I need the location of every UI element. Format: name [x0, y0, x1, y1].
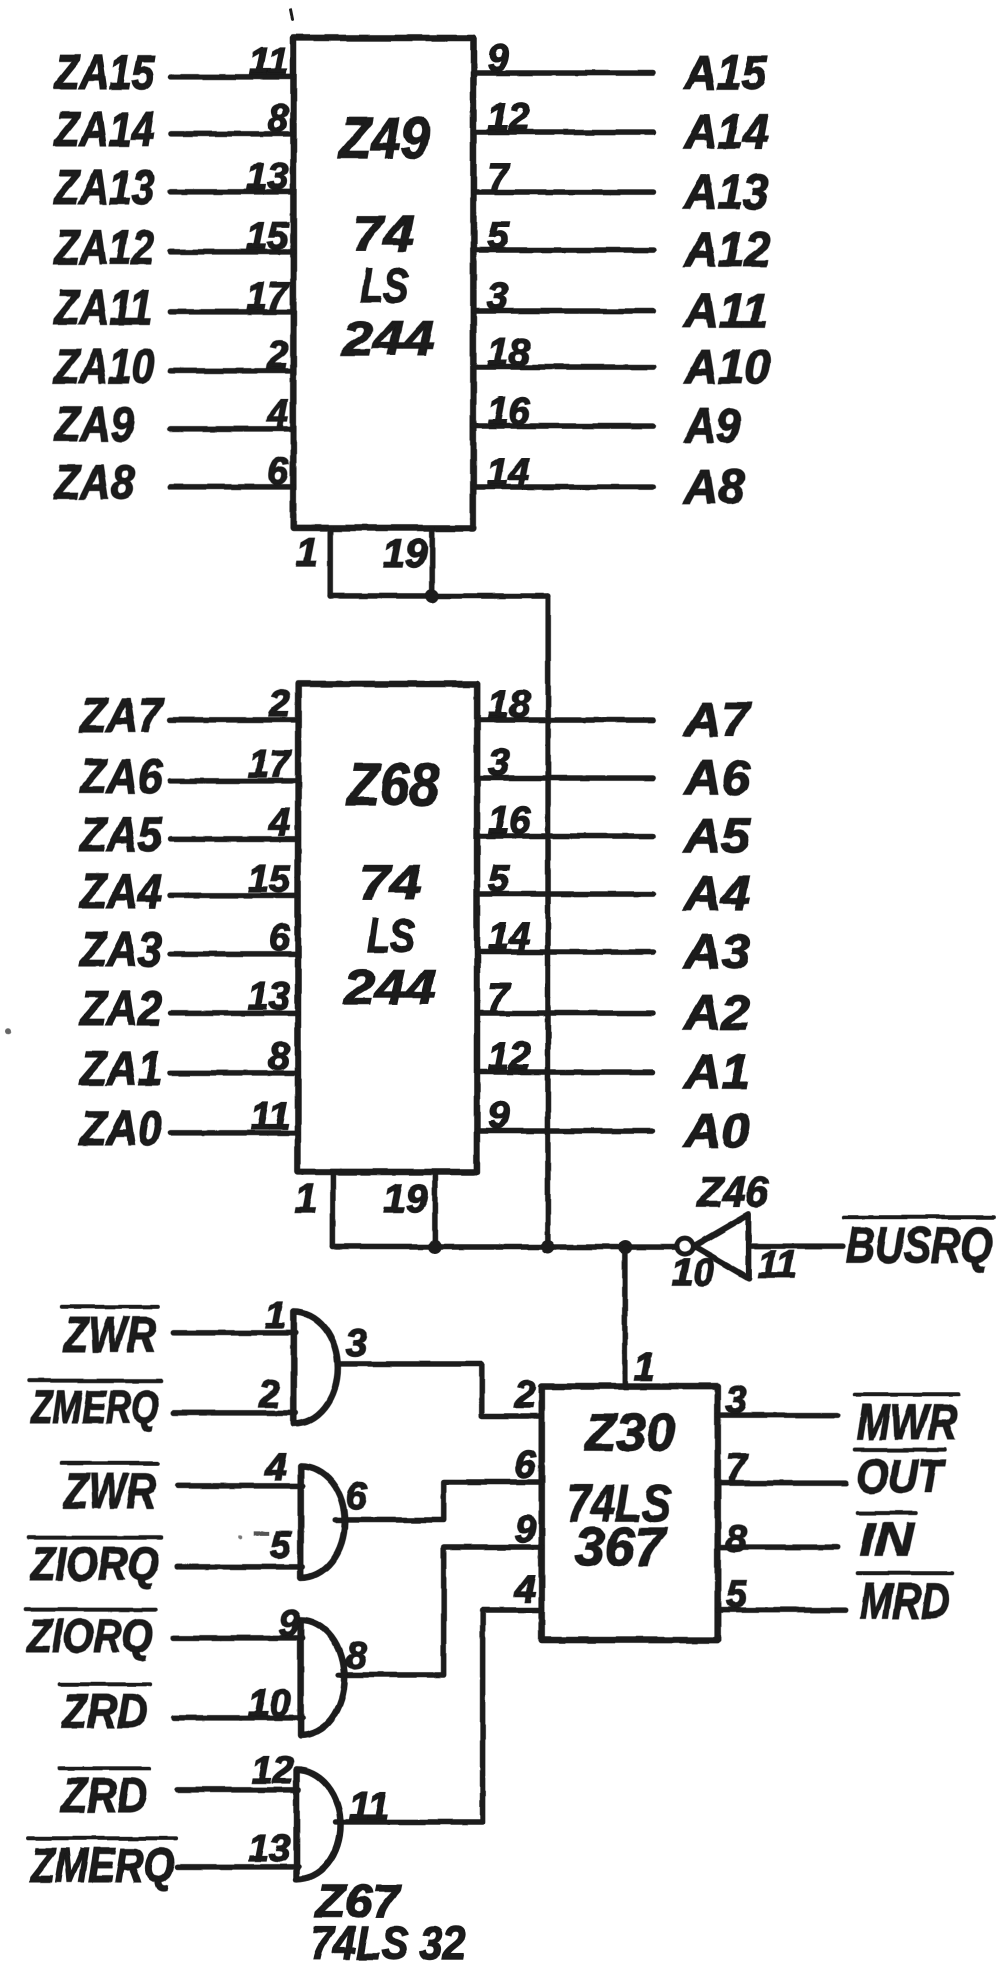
- svg-text:11: 11: [249, 41, 288, 83]
- svg-text:13: 13: [248, 976, 290, 1018]
- svg-text:ZA13: ZA13: [53, 162, 155, 215]
- svg-text:74: 74: [359, 857, 421, 910]
- svg-text:6: 6: [515, 1444, 537, 1486]
- svg-text:ZA15: ZA15: [53, 47, 156, 100]
- svg-text:14: 14: [487, 452, 529, 494]
- svg-text:Z30: Z30: [583, 1404, 675, 1462]
- svg-text:2: 2: [268, 683, 290, 725]
- svg-text:7: 7: [488, 977, 511, 1019]
- svg-text:16: 16: [487, 391, 530, 433]
- svg-text:7: 7: [726, 1447, 749, 1489]
- svg-text:3: 3: [726, 1379, 747, 1421]
- svg-text:11: 11: [350, 1786, 389, 1828]
- svg-text:18: 18: [487, 332, 530, 374]
- svg-text:A0: A0: [683, 1105, 750, 1158]
- svg-text:ZA9: ZA9: [53, 399, 135, 452]
- svg-text:MWR: MWR: [857, 1394, 957, 1450]
- svg-text:A11: A11: [683, 285, 768, 338]
- svg-text:ZWR: ZWR: [62, 1307, 156, 1363]
- svg-text:2: 2: [266, 335, 288, 377]
- svg-text:Z46: Z46: [697, 1168, 769, 1215]
- svg-text:ZA14: ZA14: [53, 104, 155, 157]
- svg-text:ZA12: ZA12: [53, 222, 155, 275]
- svg-text:ZA2: ZA2: [78, 983, 162, 1036]
- svg-text:ZA11: ZA11: [53, 282, 153, 335]
- svg-text:2: 2: [514, 1374, 536, 1416]
- svg-text:ZA6: ZA6: [78, 751, 162, 804]
- svg-text:5: 5: [488, 858, 510, 900]
- svg-text:9: 9: [279, 1603, 300, 1645]
- svg-text:Z49: Z49: [338, 106, 430, 171]
- svg-text:9: 9: [488, 1095, 509, 1137]
- svg-text:ZA1: ZA1: [78, 1043, 162, 1096]
- svg-text:ZA5: ZA5: [78, 809, 163, 862]
- svg-text:BUSRQ: BUSRQ: [846, 1217, 992, 1273]
- svg-text:IN: IN: [860, 1513, 915, 1565]
- svg-text:ZA3: ZA3: [78, 924, 162, 977]
- svg-text:OUT: OUT: [857, 1450, 946, 1502]
- svg-text:7: 7: [487, 157, 510, 199]
- svg-text:8: 8: [269, 1036, 291, 1078]
- svg-text:ZMERQ: ZMERQ: [29, 1381, 159, 1433]
- svg-text:A8: A8: [683, 461, 744, 514]
- svg-text:6: 6: [346, 1476, 368, 1518]
- svg-text:13: 13: [248, 1828, 290, 1870]
- svg-text:ZA7: ZA7: [78, 690, 164, 743]
- svg-text:2: 2: [258, 1374, 280, 1416]
- svg-text:13: 13: [246, 156, 288, 198]
- svg-text:9: 9: [515, 1509, 536, 1551]
- svg-text:A12: A12: [683, 224, 770, 277]
- svg-text:1: 1: [295, 1177, 317, 1221]
- svg-text:A3: A3: [683, 926, 750, 979]
- svg-text:5: 5: [726, 1574, 748, 1616]
- svg-text:ZA8: ZA8: [52, 457, 134, 510]
- svg-text:ZMERQ: ZMERQ: [29, 1840, 175, 1893]
- svg-text:1: 1: [634, 1347, 655, 1389]
- svg-text:19: 19: [383, 1177, 428, 1221]
- svg-text:6: 6: [269, 917, 291, 959]
- svg-text:A6: A6: [683, 752, 750, 805]
- svg-text:12: 12: [488, 1036, 530, 1078]
- svg-text:MRD: MRD: [860, 1573, 950, 1629]
- svg-text:8: 8: [267, 98, 289, 140]
- svg-text:6: 6: [267, 451, 289, 493]
- svg-text:18: 18: [488, 684, 531, 726]
- svg-text:10: 10: [248, 1683, 290, 1725]
- svg-text:4: 4: [265, 1447, 287, 1489]
- svg-text:11: 11: [250, 1096, 289, 1138]
- svg-text:ZA4: ZA4: [78, 866, 162, 919]
- svg-text:LS: LS: [360, 260, 408, 313]
- svg-text:3: 3: [487, 276, 508, 318]
- svg-text:9: 9: [487, 38, 508, 80]
- svg-text:A10: A10: [683, 341, 770, 394]
- svg-text:367: 367: [575, 1517, 668, 1577]
- svg-text:3: 3: [346, 1323, 367, 1365]
- svg-text:15: 15: [248, 859, 291, 901]
- svg-text:A4: A4: [683, 868, 750, 921]
- svg-text:1: 1: [296, 531, 318, 575]
- svg-text:ZIORQ: ZIORQ: [26, 1610, 153, 1662]
- svg-text:10: 10: [672, 1252, 714, 1294]
- svg-text:19: 19: [383, 532, 428, 576]
- svg-text:17: 17: [248, 744, 292, 786]
- svg-text:8: 8: [346, 1635, 368, 1677]
- svg-text:A7: A7: [683, 694, 753, 747]
- svg-text:ZIORQ: ZIORQ: [29, 1538, 159, 1590]
- svg-text:17: 17: [246, 276, 290, 318]
- svg-text:4: 4: [268, 802, 290, 844]
- svg-text:14: 14: [488, 916, 530, 958]
- svg-text:244: 244: [343, 962, 436, 1015]
- svg-text:A13: A13: [683, 166, 768, 219]
- svg-text:12: 12: [251, 1750, 293, 1792]
- svg-text:ZWR: ZWR: [62, 1463, 156, 1519]
- svg-text:16: 16: [488, 800, 531, 842]
- svg-text:74LS 32: 74LS 32: [310, 1917, 465, 1969]
- svg-text:1: 1: [265, 1295, 286, 1337]
- svg-text:Z68: Z68: [345, 751, 439, 818]
- svg-text:A2: A2: [683, 987, 750, 1040]
- svg-text:5: 5: [270, 1525, 292, 1567]
- svg-text:11: 11: [758, 1244, 797, 1286]
- svg-text:A9: A9: [683, 400, 740, 453]
- svg-text:A14: A14: [683, 106, 768, 159]
- svg-text:ZA10: ZA10: [53, 341, 155, 394]
- svg-text:4: 4: [514, 1569, 536, 1611]
- svg-text:5: 5: [487, 215, 509, 257]
- svg-text:4: 4: [266, 393, 288, 435]
- svg-text:8: 8: [726, 1518, 748, 1560]
- svg-text:12: 12: [487, 97, 529, 139]
- svg-text:ZRD: ZRD: [60, 1770, 148, 1823]
- svg-text:A5: A5: [683, 810, 752, 863]
- svg-text:A15: A15: [684, 47, 768, 100]
- svg-text:3: 3: [488, 742, 509, 784]
- svg-text:A1: A1: [683, 1046, 750, 1099]
- svg-text:ZRD: ZRD: [60, 1686, 148, 1739]
- svg-text:LS: LS: [367, 910, 415, 963]
- svg-text:74: 74: [352, 206, 414, 262]
- svg-text:244: 244: [341, 313, 434, 366]
- svg-text:15: 15: [246, 216, 289, 258]
- svg-text:ZA0: ZA0: [78, 1103, 162, 1156]
